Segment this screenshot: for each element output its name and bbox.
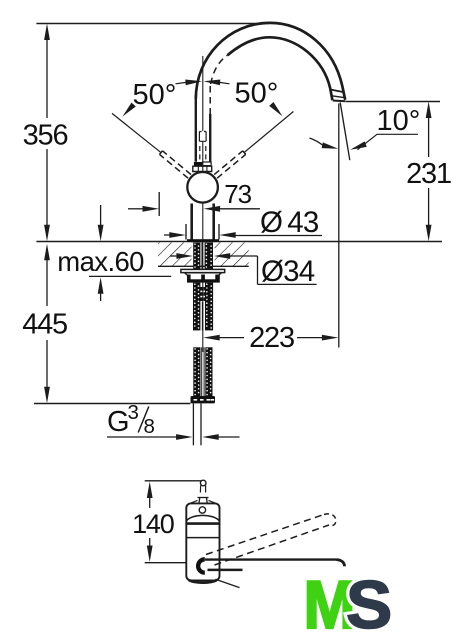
svg-text:8: 8: [144, 415, 155, 438]
svg-text:G: G: [107, 406, 130, 438]
svg-text:10°: 10°: [377, 105, 421, 137]
svg-text:50°: 50°: [133, 79, 177, 111]
svg-text:231: 231: [406, 158, 451, 190]
svg-text:445: 445: [22, 309, 67, 341]
svg-text:Ø 43: Ø 43: [260, 206, 319, 239]
svg-text:223: 223: [249, 322, 294, 354]
svg-text:max.60: max.60: [57, 246, 144, 277]
svg-text:S: S: [346, 567, 392, 640]
svg-text:356: 356: [23, 120, 68, 152]
svg-text:Ø34: Ø34: [261, 255, 315, 288]
svg-text:140: 140: [132, 509, 174, 539]
svg-text:3: 3: [128, 401, 139, 424]
svg-text:73: 73: [224, 179, 251, 209]
